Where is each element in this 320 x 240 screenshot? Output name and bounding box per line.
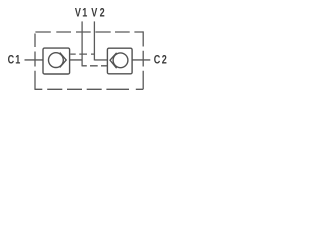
svg-text:V: V xyxy=(75,6,82,20)
svg-text:2: 2 xyxy=(162,53,167,67)
svg-text:C: C xyxy=(154,53,161,67)
wire right valve to C2 xyxy=(128,59,150,61)
wire V2 stem to right valve xyxy=(94,59,110,61)
wire C1 to left valve xyxy=(25,59,49,61)
right edge xyxy=(142,31,144,89)
svg-text:1: 1 xyxy=(82,6,87,20)
wire V1 stem (vertical) xyxy=(81,21,83,66)
bottom edge xyxy=(35,88,143,90)
check valve CV2 ball xyxy=(113,53,128,68)
top edge xyxy=(35,31,143,33)
left edge xyxy=(34,34,36,90)
svg-text:C: C xyxy=(8,53,15,67)
pilot line (dashed) from V2 stem to left valve xyxy=(70,53,94,55)
svg-text:2: 2 xyxy=(100,6,105,20)
svg-text:V: V xyxy=(91,6,98,20)
pilot line (dashed) from V1 stem to right valve xyxy=(82,65,107,67)
check valve CV1 ball xyxy=(49,53,64,68)
wire V2 stem (vertical) xyxy=(93,21,95,60)
check valve CV1 seat xyxy=(60,53,66,68)
check valve CV2 seat xyxy=(110,53,117,68)
check valve CV2 body (right square) xyxy=(107,48,132,74)
svg-text:1: 1 xyxy=(15,53,20,67)
wire left valve to V1 stem xyxy=(66,59,82,61)
port label V1 xyxy=(8,6,167,67)
enclosure (dashed component boundary box) xyxy=(35,31,143,90)
check valve CV1 body (left square) xyxy=(43,48,70,74)
